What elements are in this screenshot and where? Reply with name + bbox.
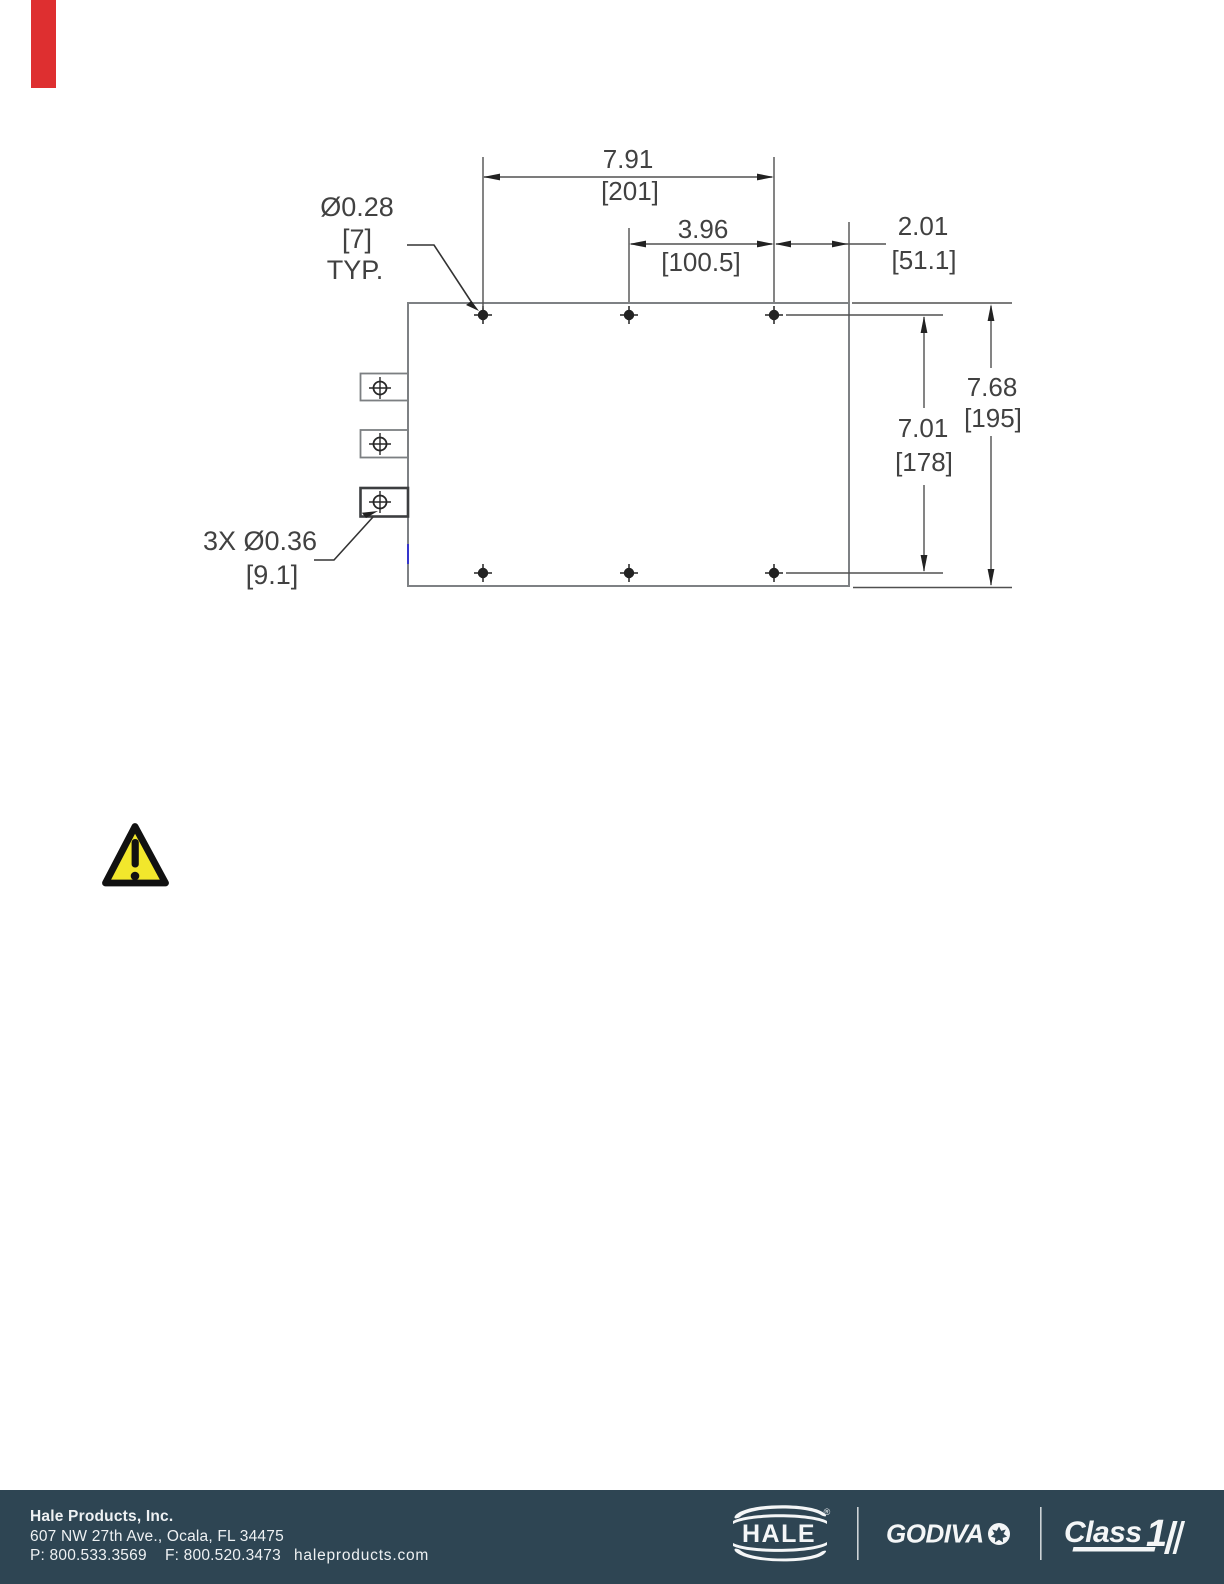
tab 1 xyxy=(361,374,409,401)
svg-text:3.96: 3.96 xyxy=(678,214,729,244)
plate hole top-left xyxy=(474,306,492,324)
arrowheads xyxy=(483,174,994,586)
divider xyxy=(857,1507,859,1560)
svg-text:GODIVA: GODIVA xyxy=(886,1519,984,1549)
logos xyxy=(0,1490,1224,1584)
leader for 0.36 tab holes xyxy=(314,517,373,560)
svg-text:HALE: HALE xyxy=(742,1520,816,1548)
svg-text:3X Ø0.36: 3X Ø0.36 xyxy=(203,526,317,556)
svg-text:2.01: 2.01 xyxy=(898,211,949,241)
divider xyxy=(1040,1507,1042,1560)
svg-text:[51.1]: [51.1] xyxy=(891,245,956,275)
svg-text:[201]: [201] xyxy=(601,176,659,206)
svg-text:[100.5]: [100.5] xyxy=(661,247,741,277)
svg-text:[195]: [195] xyxy=(964,403,1022,433)
tab 2 xyxy=(361,430,409,458)
tab hole 1 xyxy=(369,377,391,399)
plate hole bottom-mid xyxy=(620,564,638,582)
svg-text:®: ® xyxy=(824,1507,831,1517)
svg-text:7.68: 7.68 xyxy=(967,372,1018,402)
plate outline xyxy=(408,303,849,586)
red page tab bar xyxy=(31,0,56,88)
svg-text:[7]: [7] xyxy=(342,224,372,254)
Class 1 logo xyxy=(1064,1513,1185,1555)
leader for 0.28 holes xyxy=(407,245,474,306)
plate hole top-mid xyxy=(620,306,638,324)
plate hole top-right xyxy=(765,306,783,324)
GODIVA logo xyxy=(886,1519,1010,1549)
svg-text:[9.1]: [9.1] xyxy=(246,560,299,590)
warning triangle icon xyxy=(99,822,171,892)
svg-text:7.01: 7.01 xyxy=(898,413,949,443)
svg-text:Ø0.28: Ø0.28 xyxy=(320,192,394,222)
tab hole 3 xyxy=(369,491,391,513)
blue revision tick xyxy=(407,544,409,564)
plate hole bottom-right xyxy=(765,564,783,582)
dimension text xyxy=(203,144,1022,590)
tab hole 2 xyxy=(369,433,391,455)
footer address text xyxy=(30,1507,173,1527)
svg-text:[178]: [178] xyxy=(895,447,953,477)
svg-text:TYP.: TYP. xyxy=(327,255,384,285)
tab 3 xyxy=(361,488,409,517)
HALE logo xyxy=(733,1505,831,1561)
svg-text:Class: Class xyxy=(1064,1516,1142,1549)
plate hole bottom-left xyxy=(474,564,492,582)
svg-text:7.91: 7.91 xyxy=(603,144,654,174)
footer band xyxy=(0,1490,1224,1584)
extension + dimension lines xyxy=(483,157,1012,588)
